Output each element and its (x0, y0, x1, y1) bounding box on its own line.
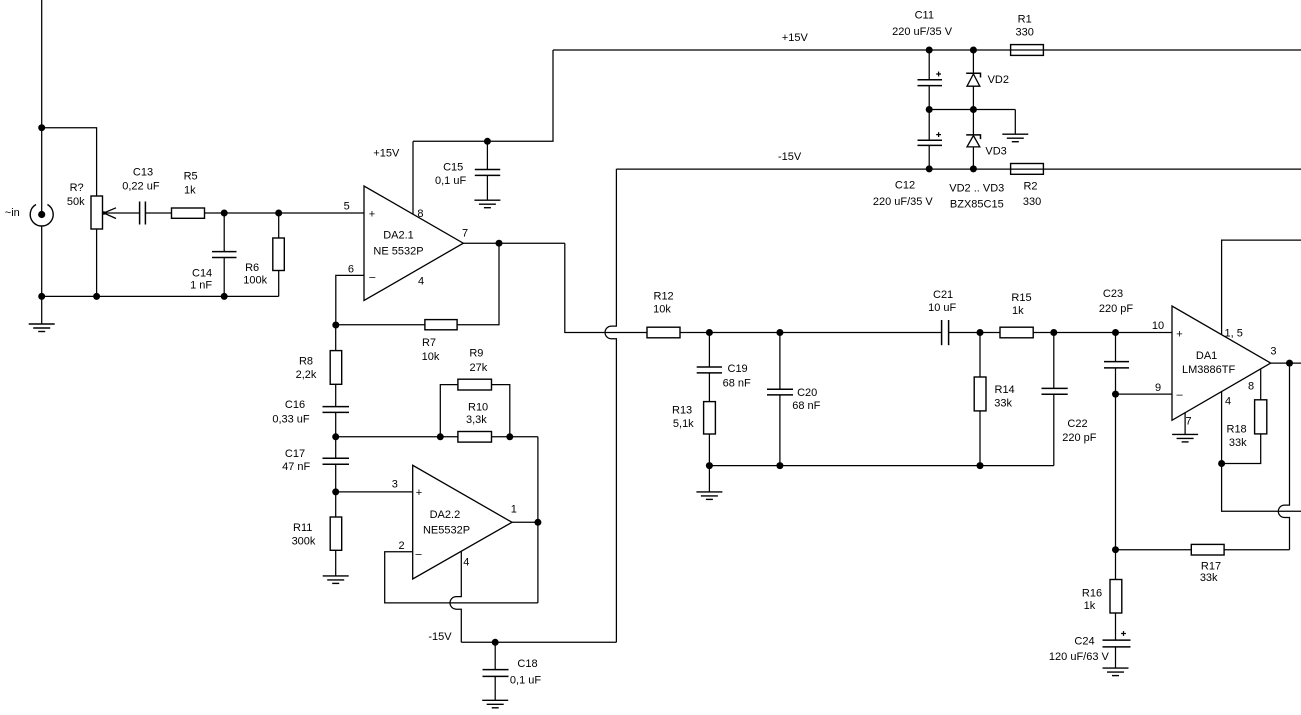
node R14 top junction (977, 329, 984, 336)
capacitor C12 220 uF/35 V (873, 110, 942, 209)
wire DA2.2 pin 3 (336, 491, 413, 493)
svg-text:-15V: -15V (428, 631, 452, 643)
svg-text:7: 7 (462, 227, 468, 239)
svg-text:+15V: +15V (782, 32, 809, 44)
node DA1 output junction (1286, 360, 1293, 367)
op-amp DA1 LM3886TF (1172, 306, 1271, 420)
resistor R13 5,1k (672, 402, 715, 466)
node C23 top junction (1112, 329, 1119, 336)
op-amp DA2.1 NE5532P (364, 186, 463, 301)
wire middle ground rail (929, 109, 1015, 111)
ground input (29, 296, 55, 331)
wire wiper to C13 (104, 212, 139, 214)
wire C13 to R5 (145, 212, 171, 214)
wire -15V rail (616, 168, 1301, 170)
resistor R8 2,2k (296, 351, 342, 385)
svg-text:R14: R14 (995, 384, 1015, 396)
svg-text:120 uF/63 V: 120 uF/63 V (1049, 651, 1110, 663)
svg-text:2,2k: 2,2k (296, 369, 317, 381)
svg-text:33k: 33k (1229, 437, 1247, 449)
node potentiometer bottom junction (93, 293, 100, 300)
wire DA2.1 output (463, 242, 565, 244)
svg-text:220 uF/35 V: 220 uF/35 V (892, 26, 953, 38)
svg-text:47 nF: 47 nF (282, 461, 310, 473)
diode VD2 (966, 50, 1009, 110)
svg-text:0,33 uF: 0,33 uF (272, 413, 310, 425)
ground C24 (1103, 668, 1129, 676)
capacitor C11 220 uF/35 V (892, 10, 953, 110)
svg-text:33k: 33k (994, 398, 1012, 410)
svg-text:DA1: DA1 (1196, 350, 1217, 362)
svg-text:C20: C20 (797, 387, 817, 399)
wire DA1 output pin 3 (1271, 362, 1301, 364)
wire input top vertical (41, 0, 43, 215)
wire DA2.1 pin 8 supply (412, 141, 414, 214)
node pin 9 junction (1112, 391, 1119, 398)
resistor R12 10k (647, 291, 680, 338)
node DA2.2 output junction (534, 519, 541, 526)
svg-text:1 nF: 1 nF (190, 279, 212, 291)
svg-text:~in: ~in (5, 207, 20, 219)
wire C23 to pin 9 node (1115, 368, 1117, 394)
wire ground drop (1014, 110, 1016, 135)
svg-text:10 uF: 10 uF (928, 302, 956, 314)
wire filter bottom rail (709, 465, 1053, 467)
svg-text:10k: 10k (422, 351, 440, 363)
node C20 bottom junction (776, 462, 783, 469)
svg-text:4: 4 (418, 276, 424, 288)
resistor R16 1k (1082, 550, 1122, 640)
wire R8 top segment (335, 325, 337, 351)
svg-text:C23: C23 (1103, 288, 1123, 300)
svg-text:C11: C11 (915, 10, 934, 22)
capacitor C21 10 uF (928, 289, 956, 345)
svg-text:100k: 100k (243, 275, 267, 287)
svg-text:R7: R7 (422, 337, 436, 349)
svg-text:R10: R10 (468, 402, 488, 414)
svg-text:C15: C15 (443, 161, 463, 173)
wire C16 to node (335, 412, 337, 436)
node DA2.1 output junction (496, 240, 503, 247)
wire DA1 pin 9 (1116, 393, 1173, 395)
diode VD3 (966, 110, 1007, 169)
svg-text:8: 8 (417, 208, 423, 220)
svg-text:1, 5: 1, 5 (1225, 328, 1243, 340)
svg-text:C19: C19 (728, 363, 748, 375)
svg-text:+: + (1176, 328, 1182, 340)
capacitor C22 220 pF (1042, 333, 1097, 466)
svg-text:R12: R12 (654, 291, 674, 303)
resistor R14 33k (974, 333, 1014, 466)
svg-text:68 nF: 68 nF (723, 378, 751, 390)
svg-text:4: 4 (463, 557, 469, 569)
node R13 bottom junction (706, 462, 713, 469)
wire feedback out (1222, 464, 1301, 512)
capacitor C15 0,1 uF (435, 141, 500, 200)
wire R12 to C21 (680, 332, 942, 334)
svg-text:+15V: +15V (373, 148, 400, 160)
wire DA1 pins 1,5 supply (1222, 240, 1301, 335)
svg-text:VD3: VD3 (985, 146, 1006, 158)
ground DA1 (1172, 434, 1198, 442)
wire +15V horizontal to rail riser (413, 50, 553, 141)
capacitor C17 47 nF (282, 437, 349, 473)
svg-text:–: – (369, 272, 376, 284)
wire DA2.1 pin 6 (336, 275, 364, 325)
svg-text:+: + (416, 487, 422, 499)
svg-text:220 uF/35 V: 220 uF/35 V (873, 196, 934, 208)
node R18 feedback junction (1218, 460, 1225, 467)
svg-text:330: 330 (1023, 196, 1041, 208)
node R14 bottom junction (977, 462, 984, 469)
node feedback junction DA2.1 (332, 322, 339, 329)
capacitor C13 0,22 uF (122, 167, 160, 225)
svg-text:1: 1 (511, 504, 517, 516)
resistor R2 330 (1011, 164, 1044, 209)
svg-text:300k: 300k (292, 535, 316, 547)
ground C18 (482, 700, 508, 708)
svg-text:7: 7 (1186, 416, 1192, 428)
resistor R5 1k (172, 170, 205, 218)
node R10 right junction (506, 433, 513, 440)
capacitor C19 68 nF (697, 333, 751, 402)
svg-text:R18: R18 (1227, 424, 1247, 436)
svg-text:33k: 33k (1200, 572, 1218, 584)
svg-text:27k: 27k (470, 362, 488, 374)
svg-text:10k: 10k (653, 304, 671, 316)
op-amp DA2.2 NE5532P (413, 465, 512, 579)
svg-text:NE 5532P: NE 5532P (373, 246, 423, 258)
svg-text:C21: C21 (933, 289, 953, 301)
wire -15V riser with hop (605, 169, 616, 642)
capacitor C16 0,33 uF (272, 399, 349, 425)
capacitor C20 68 nF (767, 333, 821, 466)
svg-text:R9: R9 (469, 348, 483, 360)
svg-text:330: 330 (1016, 27, 1034, 39)
wire output down with hop (1278, 363, 1289, 550)
capacitor C23 220 pF (1099, 288, 1134, 368)
wire DA2.2 output (512, 521, 538, 523)
svg-text:LM3886TF: LM3886TF (1182, 364, 1235, 376)
wire to R17 (1116, 549, 1192, 551)
svg-text:C16: C16 (285, 399, 305, 411)
svg-text:8: 8 (1248, 381, 1254, 393)
svg-text:4: 4 (1225, 395, 1231, 407)
svg-text:6: 6 (348, 263, 354, 275)
svg-text:220 pF: 220 pF (1099, 303, 1134, 315)
svg-text:R13: R13 (672, 405, 692, 417)
node VD3 bottom junction (970, 165, 977, 172)
svg-text:C22: C22 (1067, 418, 1087, 430)
svg-text:R1: R1 (1018, 14, 1032, 26)
wire C21 to R15 (949, 332, 1000, 334)
wire output riser DA2.2 (537, 437, 539, 603)
resistor R7 10k (422, 320, 457, 363)
svg-text:+: + (369, 208, 375, 220)
node VD2 bottom junction (970, 106, 977, 113)
svg-text:C12: C12 (895, 179, 915, 191)
svg-text:VD2 .. VD3: VD2 .. VD3 (949, 182, 1004, 194)
label VD2 VD3 type (949, 182, 1004, 210)
wire R7 to output node (457, 243, 499, 325)
node C12 bottom junction (926, 165, 933, 172)
svg-text:–: – (1176, 389, 1183, 401)
svg-text:10: 10 (1152, 320, 1164, 332)
svg-text:R15: R15 (1011, 292, 1031, 304)
svg-text:R5: R5 (184, 170, 198, 182)
svg-text:3: 3 (1270, 346, 1276, 358)
connector ~in (5, 205, 53, 226)
ground filter (696, 466, 722, 500)
svg-text:1k: 1k (1084, 600, 1096, 612)
node C11 bottom junction (926, 106, 933, 113)
svg-text:5: 5 (344, 201, 350, 213)
node C22 top junction (1050, 329, 1057, 336)
wire R17 to output riser (1224, 549, 1289, 551)
svg-text:3: 3 (392, 479, 398, 491)
wire pin 9 riser down (1115, 394, 1117, 550)
svg-text:R16: R16 (1082, 588, 1102, 600)
svg-text:C13: C13 (133, 167, 153, 179)
resistor R11 300k (292, 492, 342, 576)
wire R5 to DA2.1 pin 5 (205, 212, 365, 214)
svg-text:C24: C24 (1074, 635, 1094, 647)
svg-text:1k: 1k (184, 184, 196, 196)
node C15 junction (484, 138, 491, 145)
svg-text:C18: C18 (517, 658, 537, 670)
svg-text:50k: 50k (67, 196, 85, 208)
node C18 junction (492, 639, 499, 646)
ground power mid (1002, 134, 1028, 142)
svg-text:220 pF: 220 pF (1062, 432, 1097, 444)
node R6 top junction (275, 210, 282, 217)
wire DA1 pin 4 (1221, 391, 1223, 463)
svg-text:0,1 uF: 0,1 uF (510, 675, 541, 687)
node C16 C17 junction (332, 433, 339, 440)
node C11 top junction (926, 47, 933, 54)
node C20 top junction (776, 329, 783, 336)
svg-text:R6: R6 (245, 262, 259, 274)
ground R11 (323, 576, 349, 584)
svg-text:VD2: VD2 (988, 74, 1009, 86)
svg-text:–: – (415, 548, 422, 560)
svg-text:-15V: -15V (778, 151, 802, 163)
node C14 bottom junction (221, 293, 228, 300)
wire feedback to R7 (336, 324, 425, 326)
node bottom left junction (38, 293, 45, 300)
wire to potentiometer top (42, 128, 97, 196)
wire +15V rail (553, 49, 1301, 51)
wire R9 R10 node from C16 junction (336, 436, 458, 438)
node C14 top junction (221, 210, 228, 217)
wire connector to ground rail (41, 226, 43, 296)
svg-text:0,1 uF: 0,1 uF (435, 175, 466, 187)
resistor R10 3,3k (458, 402, 492, 442)
svg-text:3,3k: 3,3k (466, 414, 487, 426)
wire DA2.2 pin 2 loop (385, 552, 538, 603)
wire DA2.2 pin 4 with hop (450, 551, 461, 642)
potentiometer R? 50k (67, 182, 116, 229)
wire potentiometer bottom (96, 229, 98, 296)
ground C15 (474, 200, 500, 208)
resistor R1 330 (1011, 14, 1044, 56)
resistor R17 33k (1191, 544, 1224, 584)
wire R10 right to output riser (492, 436, 538, 438)
svg-text:DA2.1: DA2.1 (383, 230, 414, 242)
capacitor C14 1 nF (190, 213, 236, 296)
resistor R18 33k (1222, 369, 1267, 464)
svg-text:R17: R17 (1201, 560, 1221, 572)
svg-text:2: 2 (399, 540, 405, 552)
wire -15V bottom rail (461, 641, 616, 643)
svg-text:R?: R? (70, 182, 84, 194)
svg-text:9: 9 (1155, 382, 1161, 394)
svg-text:C17: C17 (285, 448, 305, 460)
capacitor C24 120 uF/63 V (1049, 631, 1131, 668)
wire R15 to DA1 pin 10 (1033, 332, 1172, 334)
node VD2 top junction (970, 47, 977, 54)
resistor R15 1k (1000, 292, 1033, 338)
resistor R9 27k (440, 348, 510, 437)
wire DA1 pin 7 (1184, 413, 1186, 435)
node R10 left junction (437, 433, 444, 440)
svg-text:C14: C14 (192, 268, 212, 280)
svg-text:0,22 uF: 0,22 uF (122, 181, 160, 193)
node pin3 junction (332, 488, 339, 495)
node C19 top junction (706, 329, 713, 336)
resistor R6 100k (243, 213, 284, 296)
svg-text:1k: 1k (1012, 305, 1024, 317)
wire output down to R12 row (565, 243, 647, 332)
svg-text:68 nF: 68 nF (792, 400, 820, 412)
svg-text:NE5532P: NE5532P (423, 524, 470, 536)
svg-text:R11: R11 (293, 522, 312, 534)
svg-text:R8: R8 (299, 356, 313, 368)
svg-text:DA2.2: DA2.2 (430, 509, 461, 521)
wire R8 to C16 (335, 384, 337, 406)
svg-text:5,1k: 5,1k (673, 418, 694, 430)
svg-text:BZX85C15: BZX85C15 (950, 199, 1004, 211)
wire C17 to pin3 node (335, 464, 337, 492)
wire bottom ground rail (42, 295, 279, 297)
svg-text:R2: R2 (1023, 181, 1037, 193)
capacitor C18 0,1 uF (483, 642, 542, 700)
node input top junction (38, 124, 45, 131)
node R16 top junction (1112, 546, 1119, 553)
